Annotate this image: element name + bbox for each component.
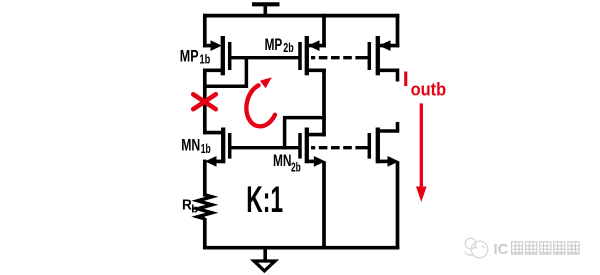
bottom rail wire xyxy=(203,246,399,250)
label Rb xyxy=(182,196,198,215)
wire resistor to bottom rail xyxy=(203,218,207,249)
svg-text:2b: 2b xyxy=(283,41,294,55)
wire output nmos drain stub xyxy=(378,122,400,131)
transistor MP3 output pmos xyxy=(369,36,390,75)
svg-text:IC: IC xyxy=(494,241,509,258)
wire MN1b source to resistor xyxy=(203,160,207,197)
wire MP1b drain lead xyxy=(203,69,223,73)
wire left branch vertical xyxy=(203,69,207,135)
transistor MN2b xyxy=(300,128,325,167)
dashed gate line nmos mirror xyxy=(311,146,369,149)
svg-text:outb: outb xyxy=(411,79,447,99)
svg-text:MP: MP xyxy=(180,46,199,65)
wire pmos gate bus xyxy=(230,56,300,59)
wire MP1b source from rail xyxy=(203,14,207,48)
wire output nmos source lead xyxy=(378,160,389,164)
svg-text:MN: MN xyxy=(273,152,292,170)
label MP1b xyxy=(180,46,211,66)
wire MN2b drain lead xyxy=(307,133,326,137)
label MN2b xyxy=(273,152,301,174)
wire MN2b source lead xyxy=(307,160,315,164)
wire MP2b source lead xyxy=(309,44,326,48)
dashed gate line pmos mirror xyxy=(311,56,369,59)
red output current arrow xyxy=(416,103,427,202)
svg-text:MN: MN xyxy=(181,137,200,155)
wire output pmos drain stub xyxy=(378,70,398,81)
wire output pmos source from rail xyxy=(396,14,400,48)
ground symbol xyxy=(254,261,275,271)
wire MP2b drain lead xyxy=(307,69,326,73)
svg-text:1b: 1b xyxy=(200,52,211,66)
wire MN2b source to rail xyxy=(322,161,326,249)
wire MP1b source lead xyxy=(203,44,212,48)
wire output nmos source to rail xyxy=(396,161,400,249)
wire MP2b source from rail xyxy=(322,14,326,48)
red X startup failure mark xyxy=(193,94,216,109)
watermark text IC skill porter xyxy=(494,241,580,258)
svg-text:I: I xyxy=(403,67,409,91)
wire MN1b drain lead xyxy=(203,131,223,135)
resistor Rb xyxy=(198,195,212,219)
wire MN1b source lead xyxy=(214,160,223,164)
wire output pmos source lead xyxy=(379,44,399,48)
watermark logo xyxy=(465,238,488,258)
vdd stub wire xyxy=(263,4,267,17)
label Ioutb output current xyxy=(403,67,446,99)
svg-text:1b: 1b xyxy=(201,142,211,156)
wire MP1b diode connection xyxy=(205,58,247,87)
svg-text:MP: MP xyxy=(265,35,283,54)
transistor MN1b xyxy=(205,128,230,167)
wire nmos gate bus xyxy=(230,146,300,149)
wire MN2b gate-drain tie xyxy=(285,118,326,150)
label MN1b xyxy=(181,137,211,156)
red loop arrow xyxy=(246,77,275,126)
transistor MN3 output nmos xyxy=(369,128,399,167)
svg-text:2b: 2b xyxy=(291,160,301,174)
label MP2b xyxy=(265,35,294,55)
svg-text:b: b xyxy=(191,203,198,215)
ground stub xyxy=(263,248,267,261)
transistor MP1b xyxy=(211,36,230,75)
wire MP2b drain to MN2b drain vertical xyxy=(322,69,326,137)
vdd supply bar xyxy=(252,2,280,6)
transistor MP2b xyxy=(300,36,320,75)
svg-text:K:1: K:1 xyxy=(246,178,283,220)
top rail wire xyxy=(203,14,399,18)
